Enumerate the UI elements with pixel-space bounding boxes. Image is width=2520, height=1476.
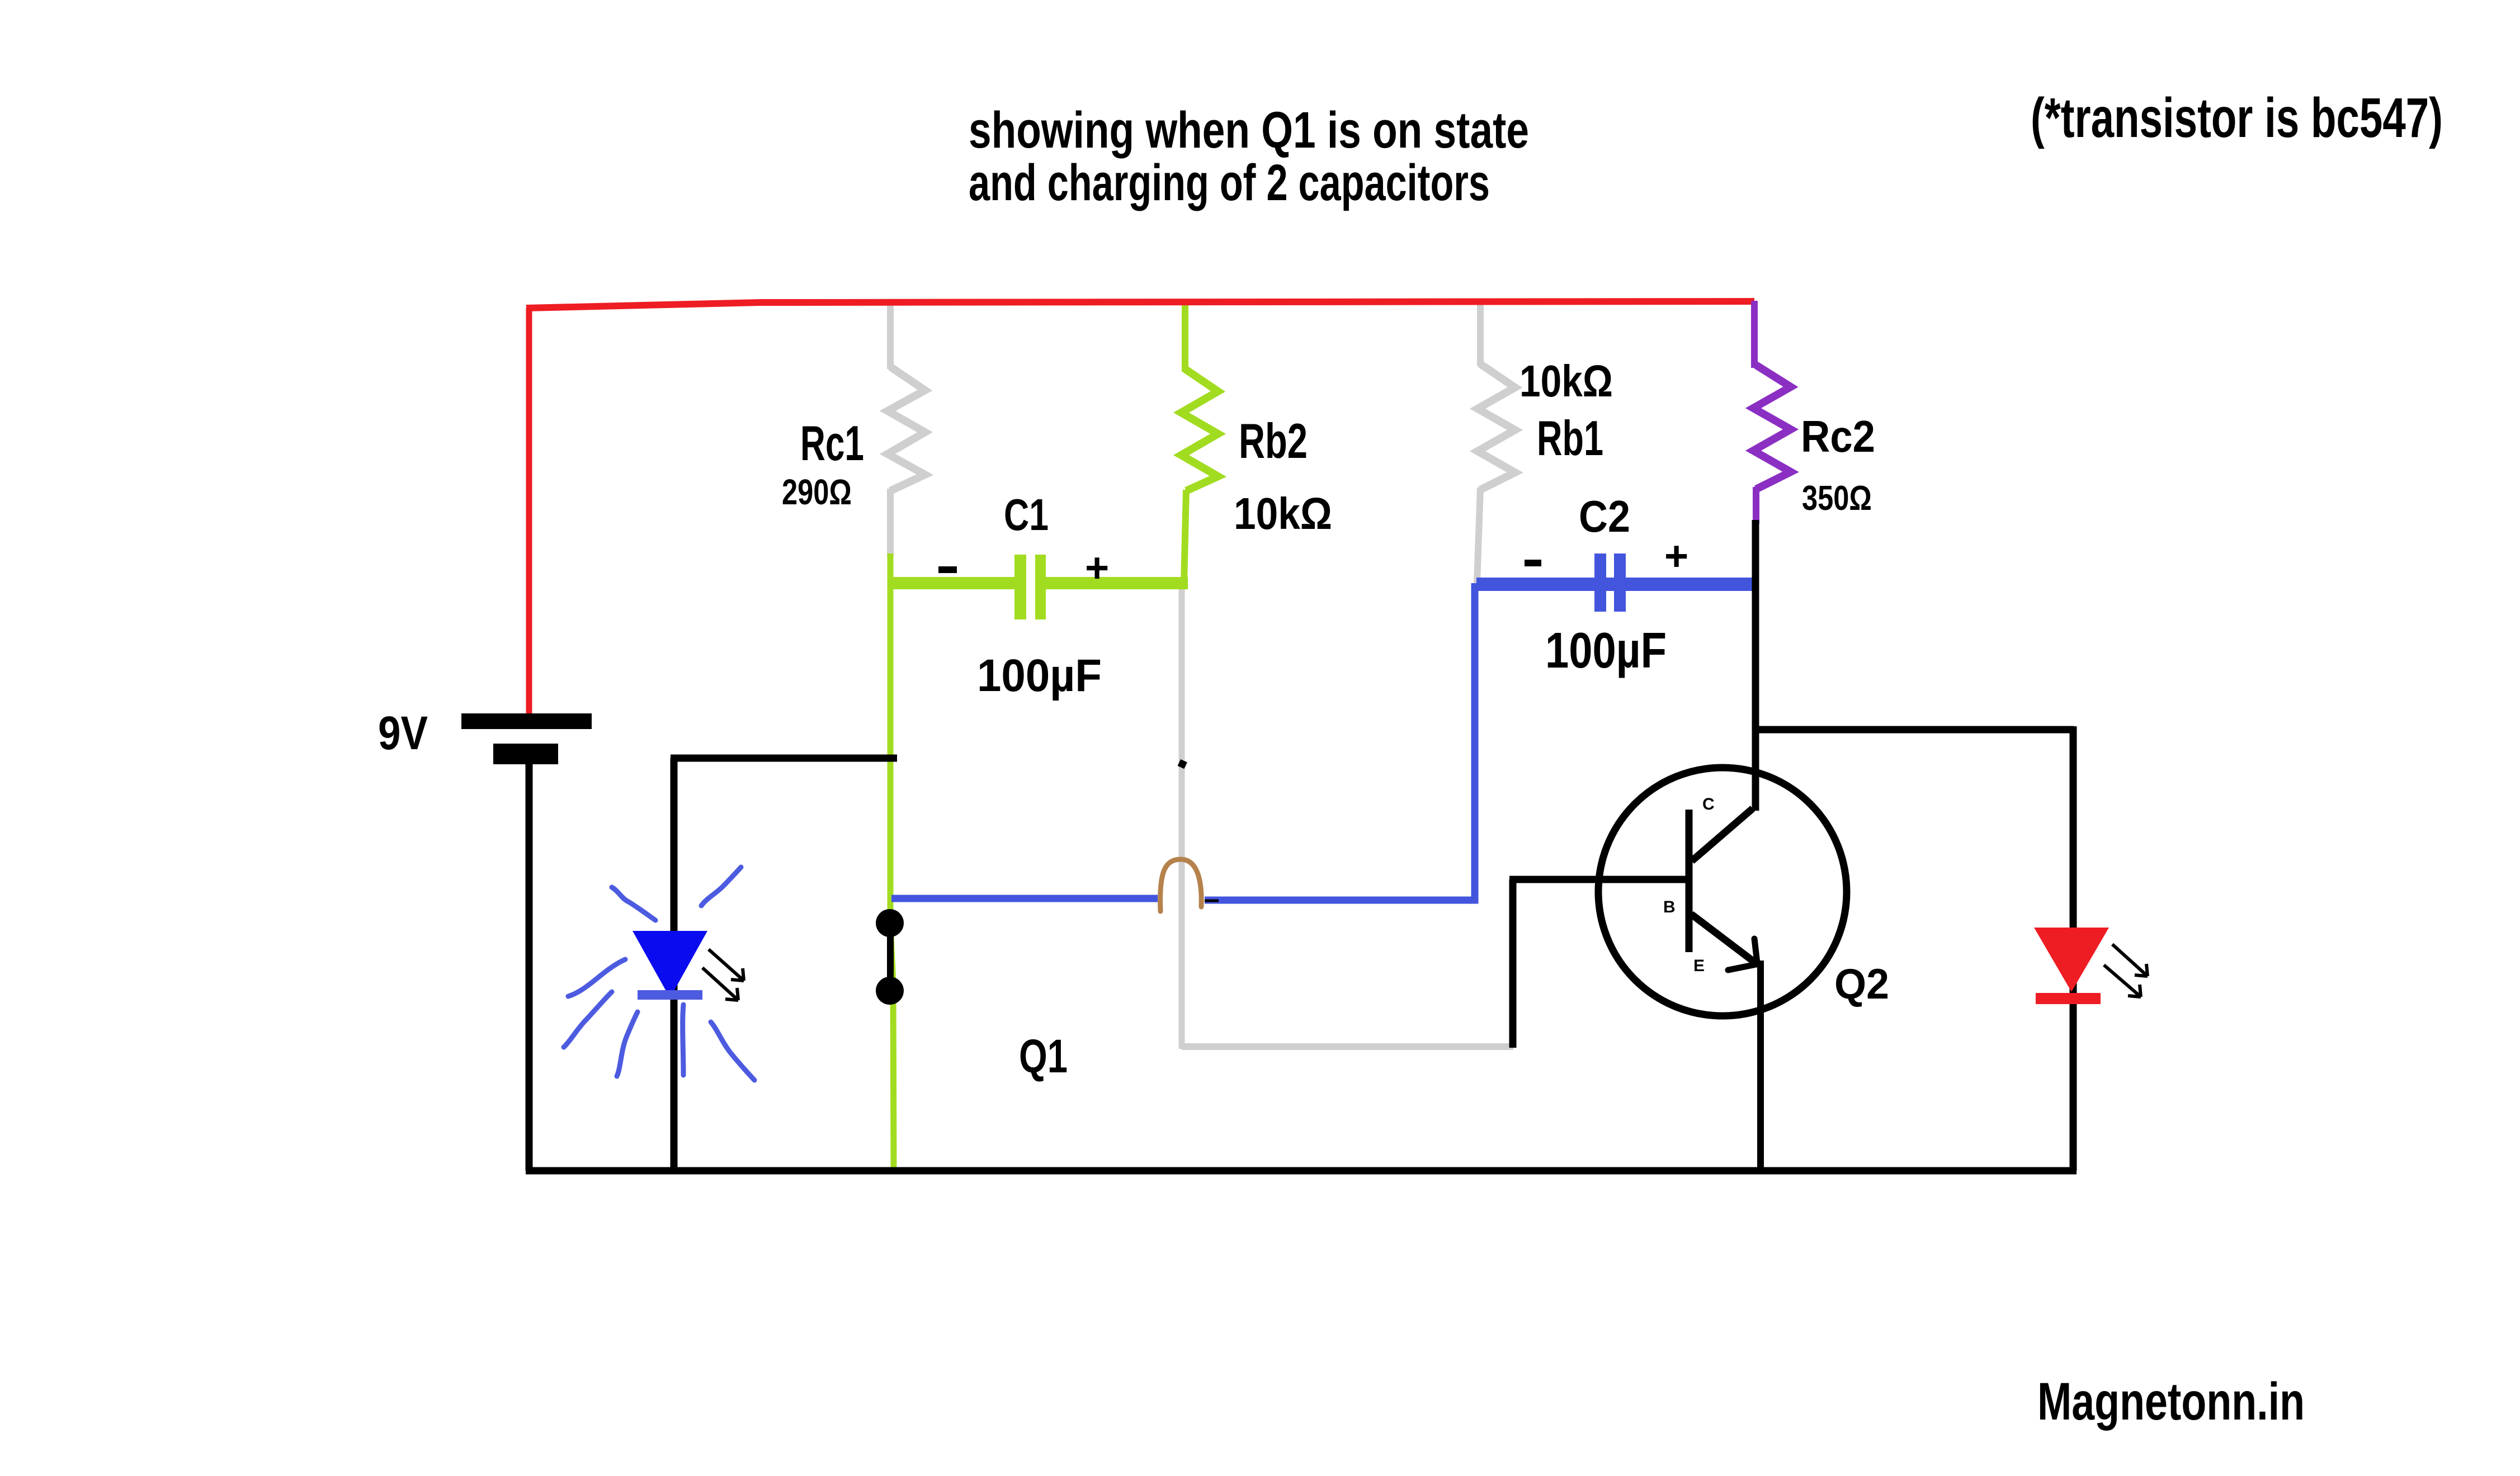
svg-text:Q2: Q2 [1834,961,1889,1008]
svg-text:10kΩ: 10kΩ [1234,489,1332,538]
svg-text:Magnetonn.in: Magnetonn.in [2037,1372,2305,1431]
svg-text:Rb2: Rb2 [1239,413,1308,469]
svg-text:E: E [1693,957,1705,975]
svg-text:(*transistor is bc547): (*transistor is bc547) [2031,87,2443,149]
svg-text:C2: C2 [1579,491,1630,541]
svg-text:C: C [1702,795,1715,813]
svg-text:350Ω: 350Ω [1802,479,1872,518]
svg-text:Rb1: Rb1 [1537,410,1603,466]
svg-text:+: + [1085,545,1109,591]
svg-text:10kΩ: 10kΩ [1519,356,1613,406]
svg-text:C1: C1 [1004,490,1049,540]
svg-text:+: + [1664,533,1688,579]
svg-text:9V: 9V [378,707,428,759]
svg-text:Q1: Q1 [1019,1030,1068,1082]
svg-text:Rc2: Rc2 [1801,411,1875,461]
svg-text:290Ω: 290Ω [782,472,852,512]
svg-text:100µF: 100µF [977,650,1102,701]
svg-text:100µF: 100µF [1545,623,1667,679]
svg-text:and charging of 2 capacitors: and charging of 2 capacitors [969,154,1490,211]
svg-text:Rc1: Rc1 [800,415,864,471]
svg-text:B: B [1663,898,1676,916]
svg-text:showing when Q1 is on state: showing when Q1 is on state [969,102,1529,159]
